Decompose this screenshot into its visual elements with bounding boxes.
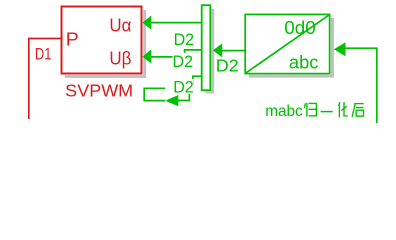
svg-text:D1: D1 [35, 44, 52, 63]
wire from dq0 block to demux input [222, 50, 246, 52]
node D2 label (wire 2, white backed) [173, 53, 195, 69]
block diagonal [246, 15, 329, 73]
CJK glyph hou (后) [352, 104, 364, 117]
svg-text:D2: D2 [174, 30, 195, 49]
wire from demux out3 down to dangling arrow [193, 76, 202, 85]
demux block [202, 5, 211, 90]
svg-text:P: P [66, 29, 79, 50]
block SVPWM [62, 7, 142, 74]
CJK glyph hua (化) [339, 102, 348, 118]
svg-text:0d0: 0d0 [284, 18, 316, 38]
svg-text:D2: D2 [173, 77, 194, 96]
node D2 label (wire 3, white backed) [173, 79, 194, 94]
CJK glyph gui (归) [305, 103, 317, 117]
wire from demux out2 to SVPWM Ubeta [151, 50, 202, 57]
arrowhead into dq0 block [334, 42, 346, 56]
wire from demux out1 to SVPWM Ualpha [150, 22, 202, 24]
svg-text:abc: abc [289, 53, 319, 73]
demux shadow [211, 9, 214, 93]
CJK glyph yi (一) [321, 111, 333, 113]
open bracket stub [144, 88, 165, 100]
svg-text:Uα: Uα [109, 15, 131, 36]
svg-text:Uβ: Uβ [109, 48, 131, 69]
dq0/abc block shadow [331, 18, 334, 77]
svg-text:D2: D2 [216, 56, 239, 76]
arrowhead into demux [213, 43, 222, 57]
svg-text:SVPWM: SVPWM [65, 81, 133, 101]
dq0/abc transform block [245, 14, 329, 73]
wire from right into dq0 block [344, 48, 377, 123]
block SVPWM shadow [143, 10, 146, 78]
arrowhead into SVPWM Ubeta [143, 49, 152, 63]
svg-text:mabc: mabc [265, 103, 303, 120]
wire D1 (red, into SVPWM P port) [29, 39, 62, 120]
svg-text:D2: D2 [173, 52, 194, 71]
arrowhead into SVPWM Ualpha [143, 16, 152, 30]
arrowhead of wire 3 [165, 95, 178, 106]
